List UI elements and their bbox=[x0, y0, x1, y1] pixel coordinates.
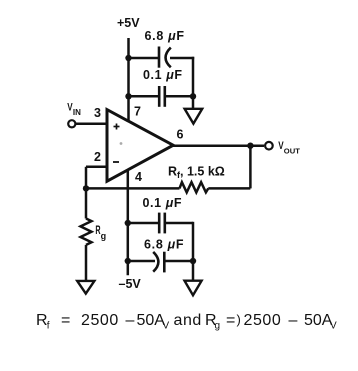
wire +5V rail vertical (pin 7 supply) bbox=[127, 38, 130, 122]
svg-text:): ) bbox=[237, 312, 241, 327]
wire 6.8uF bottom row right bbox=[164, 260, 193, 263]
svg-text:g: g bbox=[101, 231, 107, 241]
wire 6.8uF bottom row left bbox=[128, 260, 155, 263]
wire Rg top bbox=[85, 188, 88, 218]
op-amp U1 triangle bbox=[107, 110, 173, 182]
wire 0.1uF bottom row right bbox=[165, 222, 193, 225]
ground top right bbox=[185, 109, 203, 124]
svg-text:2: 2 bbox=[94, 150, 101, 164]
node junction dot inverting input bbox=[83, 185, 89, 191]
capacitor C1 6.8uF top: straight plate bbox=[158, 47, 161, 68]
wire pin 2 vertical down to node bbox=[85, 167, 88, 189]
svg-text:–5V: –5V bbox=[119, 277, 142, 291]
terminal VIN open circle bbox=[68, 120, 75, 127]
svg-text:6.8 μF: 6.8 μF bbox=[145, 29, 185, 43]
ground bottom right bbox=[185, 281, 202, 296]
node junction dot -5V / 0.1uF bbox=[125, 220, 131, 226]
svg-text:Rf, 1.5 kΩ: Rf, 1.5 kΩ bbox=[168, 165, 225, 181]
svg-text:0.1 μF: 0.1 μF bbox=[143, 196, 183, 210]
terminal VOUT open circle bbox=[265, 142, 273, 150]
svg-text:OUT: OUT bbox=[284, 146, 300, 155]
capacitor C2 0.1uF top: plates bbox=[159, 86, 165, 107]
wire Rf to output corner bbox=[208, 187, 250, 190]
capacitor C4 6.8uF bottom: straight plate bbox=[163, 252, 166, 273]
svg-text:6: 6 bbox=[177, 128, 184, 142]
svg-text:+5V: +5V bbox=[117, 16, 140, 30]
svg-text:3: 3 bbox=[94, 106, 101, 120]
node junction dot +5V / 0.1uF bbox=[125, 93, 131, 99]
node junction dot bottom ground bbox=[190, 258, 196, 264]
svg-text:4: 4 bbox=[135, 170, 142, 184]
node junction dot output bbox=[247, 143, 253, 149]
wire feedback node to Rf bbox=[86, 187, 180, 190]
wire pin 4 vertical (-5V rail) bbox=[127, 169, 130, 275]
op-amp minus input marking bbox=[113, 161, 119, 163]
wire 0.1uF top row left bbox=[129, 95, 160, 98]
svg-text:7: 7 bbox=[134, 105, 141, 119]
wire Rg bottom to ground bbox=[85, 245, 88, 281]
wire output pin 6 bbox=[172, 144, 264, 147]
wire 6.8uF top row right bbox=[170, 57, 194, 60]
svg-text:IN: IN bbox=[73, 108, 81, 117]
wire input VIN to pin 3 bbox=[75, 123, 107, 126]
resistor Rg zigzag bbox=[81, 219, 92, 245]
wire top right vertical to ground bbox=[192, 57, 195, 109]
capacitor C1 6.8uF top: curved plate bbox=[166, 48, 171, 68]
op-amp plus input marking bbox=[114, 124, 120, 130]
svg-text:0.1 μF: 0.1 μF bbox=[143, 68, 183, 82]
capacitor C4 6.8uF bottom: curved plate bbox=[153, 252, 158, 272]
wire 0.1uF top row right bbox=[165, 95, 193, 98]
svg-text:6.8 μF: 6.8 μF bbox=[144, 237, 184, 251]
node junction dot -5V / 6.8uF bbox=[125, 258, 131, 264]
node junction dot top ground bbox=[190, 93, 196, 99]
capacitor C3 0.1uF bottom: plates bbox=[159, 213, 165, 234]
wire pin 2 horizontal bbox=[86, 166, 107, 169]
wire 0.1uF bottom row left bbox=[128, 222, 159, 225]
node junction dot +5V / 6.8uF bbox=[125, 55, 131, 61]
wire bottom right vertical bbox=[192, 222, 195, 281]
resistor Rf zigzag bbox=[180, 182, 209, 192]
svg-text:Rf=2500–50AVandRg=2500–50AV: Rf=2500–50AVandRg=2500–50AV bbox=[36, 312, 337, 332]
ground bottom left bbox=[77, 281, 94, 294]
scan artifact dot inside op-amp bbox=[120, 142, 123, 145]
wire 6.8uF top row left bbox=[129, 57, 160, 60]
wire feedback vertical up to output bbox=[249, 146, 252, 189]
